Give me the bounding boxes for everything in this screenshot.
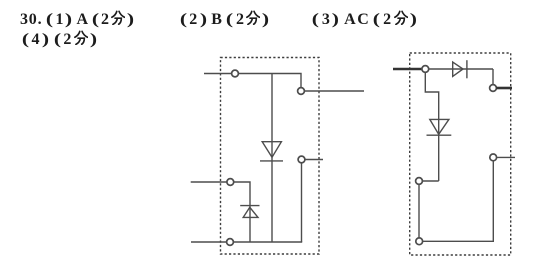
answer text line 1: item 30 (1) bbox=[20, 10, 136, 28]
wire: center vertical from top rail to diode D1 bbox=[271, 74, 273, 243]
wire: jog from top-left terminal down to diode D4 bbox=[425, 72, 438, 181]
wire: vertical from middle-left terminal to bottom terminal bbox=[418, 184, 420, 238]
terminal circle: left box bottom-left bbox=[227, 239, 234, 246]
answer text line 1: item (3) bbox=[311, 10, 419, 28]
diode D3 (right box horizontal, cathode right) bbox=[453, 60, 467, 78]
wire: D4 cathode down and left to middle-left terminal bbox=[422, 180, 438, 182]
wire: bottom rail bbox=[233, 241, 302, 243]
terminal circle: right box top-right bbox=[490, 85, 497, 92]
wire: right box top-left entry (thick) bbox=[393, 68, 422, 71]
terminal circle: right box middle-left bbox=[416, 178, 423, 185]
diode D1 (left box, cathode down) bbox=[260, 142, 283, 161]
answer text line 1: item (2) bbox=[179, 10, 273, 28]
terminal circle: left box middle-left bbox=[227, 179, 234, 186]
wire: bottom-left entry bbox=[191, 241, 227, 243]
wire: right vertical from middle-right terminal to bottom rail bbox=[301, 163, 303, 242]
terminal circle: left box top-right bbox=[298, 88, 305, 95]
terminal circle: left box middle-right bbox=[298, 156, 305, 163]
left dashed box bbox=[221, 58, 320, 255]
terminal circle: right box middle-right bbox=[490, 154, 497, 161]
wire: branch from middle-left terminal down to diode D2 bbox=[234, 182, 250, 242]
terminal circle: right box bottom-left bbox=[416, 238, 423, 245]
wire: middle-right exit stub bbox=[497, 156, 516, 158]
wire: top rail across and down to top-right terminal bbox=[238, 74, 301, 88]
wire: bottom rail and up to middle-right terminal bbox=[423, 161, 494, 242]
wire: left box top-left entry bbox=[204, 73, 232, 75]
wire: top-right exit stub (thick) bbox=[496, 87, 512, 90]
wire: D3 cathode right and down to top-right terminal bbox=[492, 69, 494, 85]
right dashed box bbox=[410, 53, 511, 255]
answer text line 2: item (4) bbox=[21, 30, 99, 48]
diode D2 (left box small, cathode up) bbox=[240, 206, 259, 218]
terminal circle: right box top-left bbox=[422, 66, 429, 73]
terminal circle: left box top-left bbox=[232, 70, 239, 77]
diode D4 (right box vertical, cathode down) bbox=[427, 119, 452, 135]
wire: top-right exit stub bbox=[304, 90, 364, 92]
wire: middle-left entry bbox=[191, 181, 227, 183]
wire: middle-right exit stub bbox=[305, 159, 323, 161]
wire: from top-left terminal to diode D3 bbox=[429, 68, 493, 70]
